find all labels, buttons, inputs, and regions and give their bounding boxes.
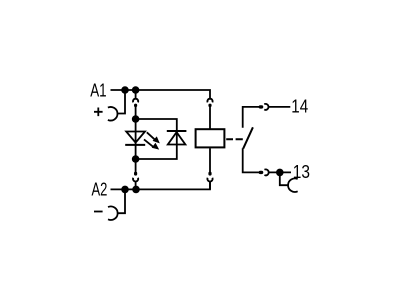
wire socket stem to A2 corner bbox=[209, 181, 211, 189]
clamp terminal symbol at - bbox=[108, 206, 118, 220]
wire socket stem to A2 bbox=[135, 181, 137, 189]
plug socket at 13 bbox=[264, 169, 268, 175]
diode D2 triangle bbox=[168, 132, 186, 144]
wire A1 horizontal to coil branch corner bbox=[111, 90, 211, 99]
wire A2 horizontal to coil branch bbox=[111, 181, 211, 189]
wire from 13 junction down to clamp bbox=[280, 172, 288, 185]
wire coil bottom pin bbox=[209, 148, 211, 174]
LED emission arrow 1 bbox=[147, 132, 160, 143]
clamp terminal symbol at + bbox=[108, 107, 118, 121]
svg-text:A2: A2 bbox=[92, 179, 108, 199]
wire socket to 14 label bbox=[268, 106, 290, 108]
wire contact bottom to 13 bbox=[243, 148, 260, 172]
plus sign bbox=[94, 108, 103, 117]
plug socket below A1 wire at coil branch bbox=[207, 99, 212, 103]
wire parallel diode branch loop bbox=[136, 119, 177, 159]
plug pin from LED branch down bbox=[135, 159, 137, 174]
wire contact top to 14 bbox=[243, 107, 260, 128]
plug pin at 14 bbox=[260, 105, 261, 108]
diode D2 cathode bar bbox=[167, 130, 187, 132]
LED D1 triangle bbox=[126, 132, 145, 143]
plug pin into coil bbox=[209, 105, 211, 129]
plug socket above A2 wire bbox=[133, 178, 138, 182]
LED emission arrow 2 bbox=[144, 139, 159, 149]
plug socket at 14 bbox=[264, 104, 268, 110]
clamp terminal symbol at 13 bbox=[288, 178, 298, 192]
relay coil K1 bbox=[196, 129, 225, 147]
plug pin into LED branch bbox=[135, 105, 137, 120]
wire from A2 junction down to - clamp bbox=[118, 189, 125, 213]
junction dot LED branch top bbox=[132, 115, 140, 123]
minus sign bbox=[94, 211, 103, 213]
junction dot on A2 wire (left) bbox=[121, 186, 129, 194]
plug socket below A1 wire bbox=[133, 90, 138, 102]
junction dot on A1 wire (left) bbox=[121, 86, 129, 94]
junction dot on A1 wire (right) bbox=[132, 86, 140, 94]
dashed actuator link coil to contact bbox=[226, 138, 243, 140]
LED D1 cathode bar bbox=[125, 144, 145, 146]
junction dot LED branch bottom bbox=[132, 155, 140, 163]
junction dot on A2 wire (right) bbox=[132, 186, 140, 194]
wire from A1 junction down to + clamp bbox=[117, 90, 125, 114]
svg-text:A1: A1 bbox=[90, 80, 106, 100]
wire socket to 13 label bbox=[269, 171, 291, 173]
plug socket above A2 wire at coil branch bbox=[207, 178, 212, 182]
contact blade NO bbox=[243, 127, 253, 148]
plug pin at 13 bbox=[260, 171, 261, 174]
junction dot at 13 bbox=[276, 169, 284, 177]
svg-text:14: 14 bbox=[291, 96, 308, 116]
wire LED branch vertical bbox=[135, 119, 137, 159]
